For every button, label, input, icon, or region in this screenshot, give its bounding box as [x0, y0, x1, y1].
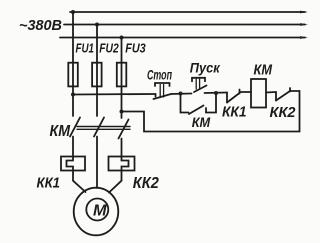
contactor KM main contact phase C	[119, 120, 129, 157]
fuse FU1	[68, 63, 78, 87]
contactor KM main contact phase A	[70, 118, 80, 157]
svg-text:~380В: ~380В	[19, 18, 62, 34]
wire control feed to stop button	[73, 93, 156, 96]
svg-text:М: М	[93, 203, 108, 220]
svg-text:КК2: КК2	[133, 175, 159, 192]
motor M	[74, 188, 119, 236]
node control tap on phase A	[71, 93, 75, 97]
wire phase C drop	[121, 38, 123, 119]
coil KM	[251, 79, 266, 108]
wire start to KK1 contact	[205, 92, 228, 95]
node tap phase B on L2	[95, 23, 99, 27]
wire coil to KK2 contact	[266, 91, 276, 94]
wire L3 bus	[60, 37, 305, 39]
svg-text:Стоп: Стоп	[147, 67, 172, 83]
svg-text:КК1: КК1	[222, 105, 247, 121]
thermal relay KK1 heater	[61, 157, 85, 171]
arrowhead L2 end	[300, 23, 308, 26]
wire L1 bus	[70, 11, 305, 13]
arrowhead L1 end	[300, 11, 308, 14]
svg-text:КК2: КК2	[270, 105, 296, 121]
arrowhead L3 end	[300, 36, 308, 39]
wire phase B drop	[96, 25, 98, 117]
fuse FU3	[117, 63, 127, 87]
node start-branch left junction	[179, 92, 183, 96]
node tap phase C on L3	[120, 36, 124, 40]
wire phase C to motor	[109, 171, 122, 193]
svg-text:КМ: КМ	[50, 123, 71, 140]
contactor KM main contact phase B	[94, 118, 104, 189]
svg-text:КМ: КМ	[254, 62, 273, 79]
pushbutton Stop (NC)	[154, 83, 172, 99]
fuse FU2	[92, 63, 102, 87]
wire return from phase C	[122, 112, 300, 132]
svg-text:Пуск: Пуск	[190, 59, 221, 75]
contact KK2 (thermal NC)	[276, 88, 300, 101]
wire L2 bus	[64, 24, 305, 26]
wire right rail	[299, 91, 301, 132]
svg-text:FU2: FU2	[99, 41, 119, 56]
node start-branch right junction	[214, 91, 218, 95]
wire phase A to motor	[73, 171, 86, 193]
auxiliary contact KM (self-hold)	[181, 93, 217, 114]
wire stop to start	[171, 93, 192, 96]
svg-text:FU3: FU3	[125, 41, 146, 56]
svg-text:КМ: КМ	[192, 115, 211, 130]
mechanical linkage bar of KM contacts	[77, 127, 130, 130]
thermal relay KK2 heater	[109, 157, 135, 171]
pushbutton Start (NO)	[192, 78, 207, 92]
svg-text:FU1: FU1	[76, 41, 95, 56]
node return tap on phase C	[120, 110, 124, 114]
contact KK1 (thermal NC)	[227, 90, 251, 103]
wire phase A drop	[72, 12, 74, 116]
node tap phase A on L1	[71, 10, 75, 14]
svg-text:КК1: КК1	[37, 175, 61, 192]
